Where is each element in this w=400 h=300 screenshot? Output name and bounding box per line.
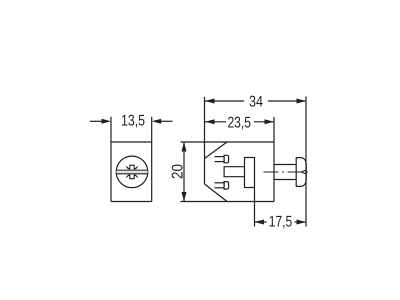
svg-text:17,5: 17,5 <box>269 213 293 230</box>
svg-text:20: 20 <box>169 164 186 179</box>
svg-text:23,5: 23,5 <box>227 115 251 132</box>
svg-text:34: 34 <box>249 94 263 111</box>
svg-text:13,5: 13,5 <box>121 113 145 130</box>
